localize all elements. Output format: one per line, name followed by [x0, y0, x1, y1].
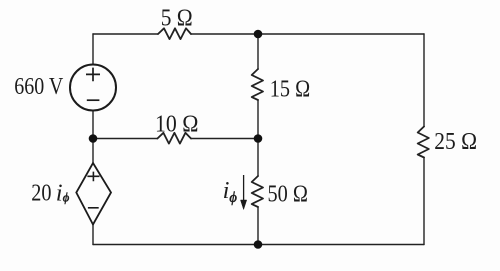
resistor R 15ohm zigzag [252, 69, 263, 100]
wire middle horizontal left segment [93, 138, 157, 140]
resistor R 25ohm zigzag [418, 127, 429, 158]
svg-text:50 Ω: 50 Ω [268, 181, 308, 208]
wire top-right horizontal segment [191, 33, 424, 35]
junction dot top-middle node [254, 30, 263, 39]
wire source bottom to diamond top [92, 111, 94, 164]
junction dot left-middle node [89, 134, 98, 143]
svg-text:20: 20 [31, 180, 51, 207]
wire right vertical lower segment [423, 158, 425, 245]
svg-text:10 Ω: 10 Ω [155, 111, 199, 138]
current arrow i_phi [241, 175, 247, 210]
svg-text:5 Ω: 5 Ω [161, 5, 193, 32]
dependent source diamond 20 i_phi [76, 163, 111, 225]
svg-text:i: i [56, 180, 63, 207]
junction dot middle node [254, 134, 263, 143]
diamond plus sign [87, 172, 99, 182]
resistor R 50ohm zigzag [252, 176, 263, 207]
source minus sign [87, 99, 100, 101]
wire left stub from top wire to source [92, 34, 94, 65]
resistor R 10ohm zigzag [157, 133, 191, 144]
wire diamond bottom to bottom wire [92, 225, 94, 245]
junction dot bottom-middle node [254, 240, 263, 249]
wire 50ohm to bottom wire [257, 207, 259, 245]
resistor R 5ohm zigzag [158, 28, 191, 39]
wire right vertical upper segment [423, 34, 425, 127]
wire middle horizontal right segment [191, 138, 258, 140]
svg-text:ϕ: ϕ [63, 191, 70, 205]
wire bottom horizontal [93, 244, 424, 246]
source plus sign [86, 68, 100, 82]
svg-text:15 Ω: 15 Ω [270, 75, 310, 102]
diamond minus sign [88, 207, 99, 209]
wire top-left horizontal segment [93, 33, 158, 35]
wire 15ohm to middle node [257, 100, 259, 176]
voltage source V1 660V circle [70, 65, 116, 111]
svg-text:ϕ: ϕ [229, 190, 237, 206]
svg-text:25 Ω: 25 Ω [434, 128, 477, 155]
wire middle vertical: top wire to 15ohm [257, 34, 259, 69]
svg-text:660 V: 660 V [14, 73, 63, 100]
